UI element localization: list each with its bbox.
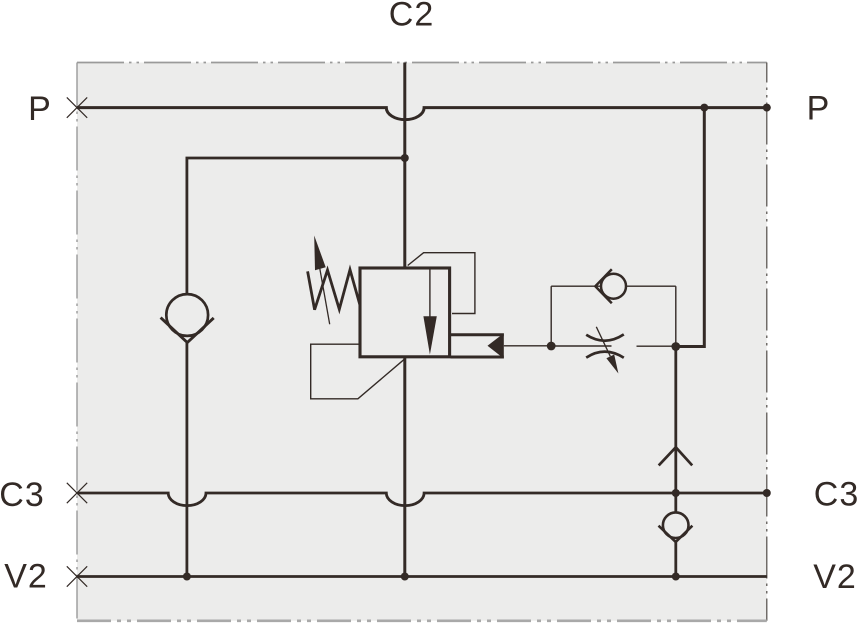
port mark X at P left bbox=[67, 97, 87, 117]
svg-text:C3: C3 bbox=[814, 476, 858, 514]
border right bbox=[766, 63, 768, 621]
wire branch to left check valve bbox=[187, 158, 405, 296]
port mark X at V2 left bbox=[67, 566, 87, 586]
node pilot left junction bbox=[547, 342, 556, 351]
node C3 right junction bbox=[672, 489, 680, 497]
variable throttle (orifice) bbox=[586, 327, 624, 374]
pilot line top-right of valve U1 bbox=[408, 253, 475, 314]
wire P line with bridge hop bbox=[77, 108, 767, 120]
valve U1 internal flow arrow bbox=[423, 270, 436, 355]
node pilot right junction bbox=[671, 342, 680, 351]
border left bbox=[76, 63, 78, 621]
wire right branch down (lower) bbox=[674, 541, 677, 577]
node P right border terminal bbox=[763, 104, 771, 112]
svg-text:V2: V2 bbox=[813, 558, 857, 596]
check valve CV1 (left, main line) bbox=[161, 294, 214, 342]
pilot loop wires (check valve / throttle bypass) bbox=[551, 286, 676, 346]
valve U1 pilot port channel with arrowhead bbox=[451, 333, 504, 358]
check valve CV2 (right, anti-cavitation) bbox=[659, 512, 693, 542]
pilot wire from valve port to node bbox=[504, 345, 551, 347]
port mark X at C3 left bbox=[67, 483, 87, 503]
svg-text:V2: V2 bbox=[4, 558, 48, 596]
svg-text:C2: C2 bbox=[389, 0, 434, 34]
node V2 right junction bbox=[672, 573, 680, 581]
wire right feed from P bbox=[677, 108, 704, 347]
svg-text:P: P bbox=[807, 90, 831, 128]
wire left check valve to V2 bbox=[185, 342, 188, 577]
drain line bottom-left of valve U1 bbox=[311, 344, 405, 399]
flow direction chevron bbox=[659, 447, 693, 465]
border bottom bbox=[77, 619, 767, 622]
node branch junction on C2 line bbox=[401, 154, 409, 162]
manifold block body bbox=[77, 63, 767, 621]
adjustment arrow through spring bbox=[314, 236, 330, 325]
border top bbox=[77, 62, 767, 64]
wire right branch down (upper) bbox=[674, 347, 677, 514]
spring of valve U1 bbox=[308, 270, 360, 310]
node V2 left junction bbox=[183, 573, 191, 581]
wire V2 line bbox=[77, 575, 767, 578]
wire C2 main vertical (upper) bbox=[403, 63, 406, 270]
node P right junction bbox=[700, 104, 708, 112]
svg-text:C3: C3 bbox=[0, 476, 45, 514]
node C3 right border terminal bbox=[763, 489, 771, 497]
wire C3 line with two bridge hops bbox=[77, 493, 767, 506]
svg-text:P: P bbox=[28, 90, 52, 128]
wire C2 main vertical (lower) bbox=[403, 356, 406, 577]
node V2 center junction bbox=[401, 573, 409, 581]
valve U1 body bbox=[360, 268, 450, 357]
pilot check valve CV3 bbox=[595, 269, 626, 303]
